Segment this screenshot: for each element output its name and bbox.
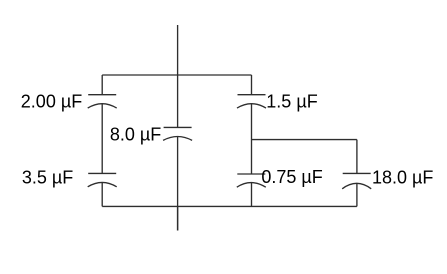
capacitor 2.00 uF [88,95,117,108]
svg-text:0.75 µF: 0.75 µF [261,167,322,187]
wire left branch middle [101,104,103,174]
wire right branch upper [251,75,253,95]
wire bottom stub [177,206,179,230]
svg-text:2.00 µF: 2.00 µF [21,92,82,112]
capacitor 18.0 uF [342,173,371,188]
svg-text:1.5 µF: 1.5 µF [266,92,317,112]
capacitor 1.5 uF [237,95,266,108]
wire middle right horizontal [252,139,357,141]
wire left branch upper [101,75,103,95]
svg-text:18.0 µF: 18.0 µF [372,168,433,188]
wire bottom horizontal [102,205,357,207]
wire right branch middle [251,104,253,174]
svg-text:8.0 µF: 8.0 µF [110,125,161,145]
wire top horizontal [102,74,251,76]
capacitor 8.0 uF [163,127,192,140]
wire far right lower [356,183,358,206]
wire left branch lower [101,182,103,206]
wire right branch lower [251,183,253,207]
svg-text:3.5 µF: 3.5 µF [22,167,73,187]
wire top stub [177,25,179,75]
capacitor 0.75 uF [237,174,266,187]
capacitor 3.5 uF [88,173,117,186]
wire center lower segment [177,137,179,231]
wire center upper segment [177,75,179,127]
wire far right upper [356,140,358,174]
